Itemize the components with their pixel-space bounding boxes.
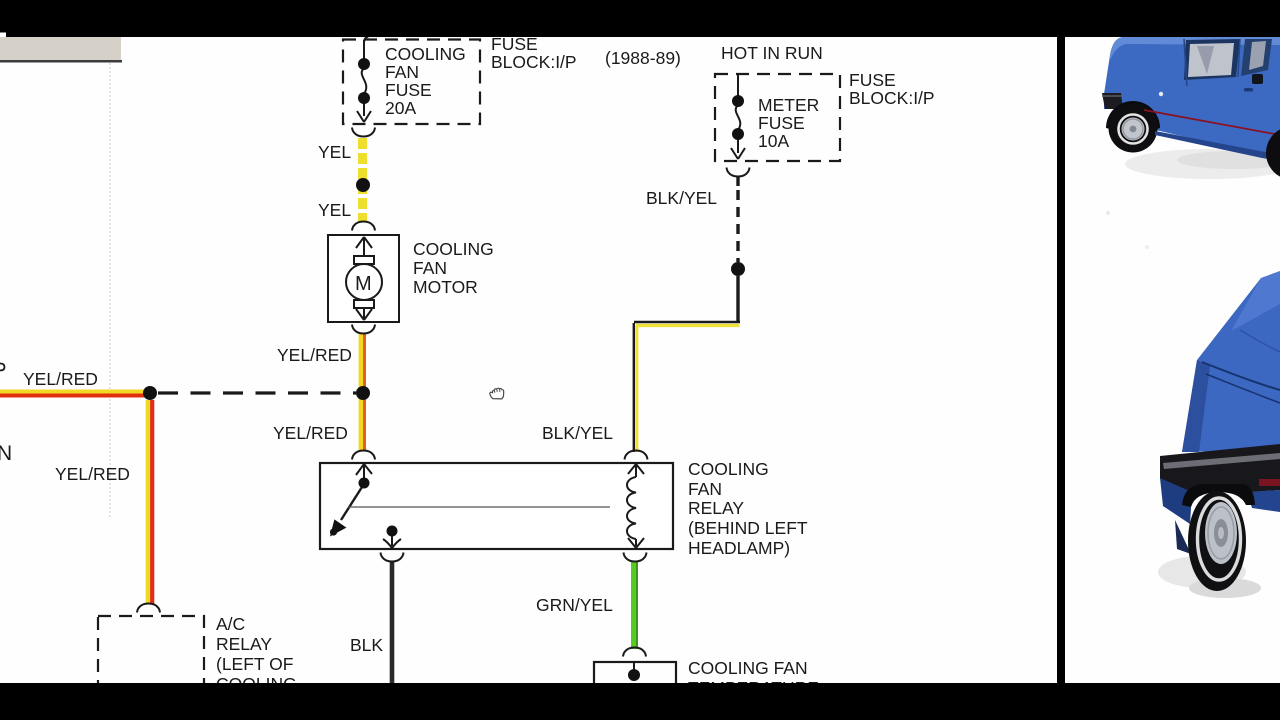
svg-text:BLK/YEL: BLK/YEL [646,188,717,208]
svg-text:RELAY: RELAY [688,498,744,518]
fuse block I/P dashed box (cooling fan fuse) [343,40,480,125]
connector below relay pin 4 [624,553,647,562]
letterbox bottom bar [0,683,1280,720]
label fragment left edge [0,364,5,371]
car1 rear wheel arch [1106,101,1160,131]
svg-text:M: M [355,273,372,295]
svg-text:A/C: A/C [216,614,245,634]
svg-text:METER: METER [758,95,819,115]
svg-text:(LEFT OF: (LEFT OF [216,654,293,674]
car2 bumper [1160,444,1280,492]
connector above temperature switch [623,648,646,657]
svg-text:BLK: BLK [350,635,383,655]
car1 door handle [1244,88,1253,92]
svg-text:BLOCK:I/P: BLOCK:I/P [491,52,577,72]
svg-text:MOTOR: MOTOR [413,277,478,297]
wire YEL (fuse to motor) [358,138,367,222]
car2 cowl lines [1202,362,1280,390]
fuse block dashed box (meter fuse) [715,74,840,161]
relay switch arm [341,464,372,520]
diagram white background [0,37,1058,683]
car2 wheel [1188,491,1246,591]
svg-text:COOLING: COOLING [688,459,769,479]
photo smudges [1106,211,1110,215]
svg-text:10A: 10A [758,131,789,151]
connector below meter fuse box [727,168,750,177]
svg-text:YEL: YEL [318,200,351,220]
svg-text:YEL/RED: YEL/RED [23,369,98,389]
node junction on YEL wire [356,178,370,192]
svg-text:20A: 20A [385,98,416,118]
connector above motor [352,222,375,231]
svg-text:COOLING: COOLING [385,44,466,64]
wire dashed link between junctions [158,391,356,394]
svg-text:YEL/RED: YEL/RED [273,423,348,443]
relay K1 cooling fan relay box [320,463,673,549]
car1 rear bumper [1102,93,1123,109]
svg-text:HEADLAMP): HEADLAMP) [688,538,790,558]
car1 body [1104,37,1280,158]
svg-text:(1988-89): (1988-89) [605,48,681,68]
svg-text:GRN/YEL: GRN/YEL [536,595,613,615]
photo car 2 bottom [1158,556,1246,588]
car1 mirror [1252,74,1263,84]
car2 under bumper right [1247,490,1280,512]
svg-text:FUSE: FUSE [849,70,896,90]
relay K2 A/C relay dashed box [98,616,204,706]
car1 rocker [1155,131,1280,161]
svg-text:HOT IN RUN: HOT IN RUN [721,43,823,63]
node junction A [143,386,157,400]
svg-text:COOLING: COOLING [413,239,494,259]
relay common contact [387,526,398,537]
wire BLK from relay [390,561,395,683]
connector below relay pin 3 [381,553,404,562]
node junction B [356,386,370,400]
switch S1 cooling fan temperature switch box [594,662,676,702]
svg-text:YEL/RED: YEL/RED [277,345,352,365]
toolbar remnant top-left [0,37,121,60]
car1 front wheel [1266,126,1280,180]
svg-text:BLOCK:I/P: BLOCK:I/P [849,88,935,108]
photo panel white background [1065,37,1280,683]
car1 door window [1184,39,1240,80]
svg-text:YEL/RED: YEL/RED [55,464,130,484]
connector above relay pin 2 [625,451,648,460]
svg-text:RELAY: RELAY [216,634,272,654]
wire YEL/RED down to A/C relay [146,400,150,604]
car1 door line [1184,39,1187,86]
wire GRN/YEL from relay [631,561,636,649]
divider bar [1057,37,1065,683]
letterbox top bar [0,0,1280,37]
relay internal link line [348,506,610,508]
svg-text:YEL: YEL [318,142,351,162]
fuse F2 meter fuse 10A [731,75,745,159]
connector above relay pin 1 [352,451,375,460]
fuse F1 cooling fan fuse 20A [357,35,371,122]
svg-text:FAN: FAN [688,479,722,499]
motor M cooling fan motor [328,235,399,322]
wire YEL/RED (motor to junction) [359,334,363,450]
cursor hand icon [490,388,504,399]
connector above A/C relay [137,604,160,613]
car2 wheel arch [1182,484,1255,507]
svg-text:FUSE: FUSE [758,113,805,133]
svg-text:BLK/YEL: BLK/YEL [542,423,613,443]
connector below fuse box [352,128,375,137]
car1 pinstripe [1144,110,1280,135]
car1 windshield [1241,39,1272,76]
svg-text:FAN: FAN [385,62,419,82]
connector below motor [352,325,375,334]
car1 fuel door [1159,92,1163,96]
faint guide line [109,63,111,517]
wire BLK/YEL from meter fuse [736,176,739,186]
wire YEL/RED horizontal from left edge [0,390,145,394]
svg-text:N: N [0,442,12,465]
car2 lower left [1160,478,1192,524]
car1 rear wheel [1109,104,1158,153]
svg-text:(BEHIND LEFT: (BEHIND LEFT [688,518,808,538]
car2 body [1182,271,1280,452]
svg-text:FAN: FAN [413,258,447,278]
relay coil [627,464,644,548]
svg-text:FUSE: FUSE [385,80,432,100]
photo car 1 top [1102,37,1280,598]
svg-text:COOLING FAN: COOLING FAN [688,658,808,678]
